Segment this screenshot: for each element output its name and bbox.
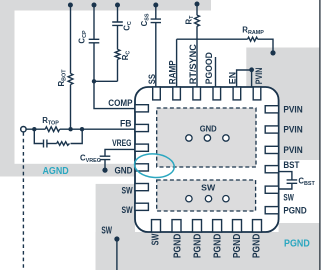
wire C_CP bottom to COMP	[94, 43, 135, 109]
top pins (inside package): SS RAMP RT/SYNC PGOOD EN PVIN	[153, 87, 261, 100]
gray block top-right PVIN region	[246, 48, 319, 161]
wire R_BOT bottom to FB node	[70, 85, 72, 130]
svg-text:SW: SW	[151, 234, 162, 246]
svg-text:RAMP: RAMP	[167, 60, 178, 84]
node FB junction1	[32, 127, 36, 131]
resistor feedforward	[57, 142, 70, 146]
svg-text:VREG: VREG	[112, 138, 131, 148]
node FB junction3	[80, 127, 84, 131]
pin SW right	[265, 186, 278, 193]
gray block left of package	[96, 184, 135, 270]
node COMP junction	[92, 79, 96, 83]
wire R_T to RT/SYNC pin	[196, 26, 198, 87]
svg-text:PGND: PGND	[252, 234, 263, 258]
capacitor C_VREG	[100, 156, 111, 159]
pin SW left5	[135, 184, 148, 191]
bottom pins (inside package): SW PGND x5	[152, 220, 262, 232]
resistor R_BOT	[68, 74, 73, 85]
left pins (inside package): COMP FB VREG GND SW SW	[135, 105, 148, 211]
resistor R_T	[195, 15, 200, 26]
IC package U1 outline	[135, 87, 279, 232]
pin SW left6	[135, 203, 148, 210]
svg-text:BST: BST	[283, 159, 299, 170]
svg-text:PVIN: PVIN	[283, 124, 302, 135]
svg-text:AGND: AGND	[43, 166, 69, 177]
svg-text:FB: FB	[120, 119, 132, 129]
wire R_BOT top	[70, 5, 72, 74]
capacitor C_C	[112, 22, 123, 25]
SW pad vias	[186, 196, 192, 202]
resistor R_TOP	[45, 127, 60, 132]
right pins (inside package): PVIN PVIN PVIN BST SW PGND	[265, 106, 278, 214]
svg-text:GND: GND	[115, 165, 133, 176]
node EN-PVIN junction	[249, 67, 254, 72]
capacitor C_CP	[89, 39, 100, 43]
capacitor feedforward	[44, 140, 47, 148]
wire C_SS top	[155, 5, 157, 19]
GND exposed pad (dashed)	[157, 108, 256, 167]
resistor R_C	[115, 49, 120, 59]
pin PGND b6	[253, 220, 262, 232]
wire branch down left	[34, 129, 43, 143]
svg-text:PGOOD: PGOOD	[203, 52, 214, 84]
pin SS	[153, 87, 161, 100]
svg-text:RT/SYNC: RT/SYNC	[187, 44, 198, 84]
svg-text:SW: SW	[122, 186, 133, 196]
svg-text:EN: EN	[227, 72, 238, 85]
node FB junction2	[68, 127, 72, 131]
pin RAMP	[173, 87, 181, 100]
svg-text:PGND: PGND	[192, 234, 203, 258]
wire junction link COMP node	[94, 80, 118, 82]
pin PGND b3	[193, 220, 202, 232]
svg-text:PVIN: PVIN	[283, 144, 302, 155]
node via top2	[92, 3, 97, 8]
pin FB	[135, 124, 148, 131]
svg-text:PVIN: PVIN	[283, 103, 302, 114]
wire PVIN drop	[251, 70, 253, 87]
wire C_BST to SW pin	[279, 184, 292, 190]
SW exposed pad (dashed)	[157, 180, 256, 211]
node via top3	[115, 3, 120, 8]
wire branch up right	[71, 129, 83, 143]
gray block below package	[96, 232, 320, 270]
wire C_C to R_C	[117, 26, 119, 50]
pin PGND b2	[172, 220, 181, 232]
wire VREG	[105, 149, 135, 155]
svg-text:SS: SS	[146, 74, 157, 84]
GND pad vias	[186, 135, 192, 141]
capacitor C_BST	[287, 180, 298, 183]
wire EN riser	[237, 70, 252, 87]
wire FB line left	[26, 128, 45, 130]
wire R_RAMP right to via	[258, 39, 273, 53]
node via top1	[68, 3, 73, 8]
wire RAMP to R_RAMP	[177, 38, 248, 40]
pin PVIN r2	[265, 126, 278, 133]
node AGND via	[102, 168, 107, 173]
gray left column	[0, 0, 15, 177]
svg-text:GND: GND	[200, 123, 217, 133]
svg-text:PGND: PGND	[232, 234, 243, 258]
wire C_CP top	[93, 5, 95, 39]
node via top4	[153, 3, 158, 8]
highlight ellipse around GND pin	[134, 152, 176, 179]
right figure border line	[319, 0, 321, 270]
dashed AGND boundary line	[22, 132, 24, 270]
pin COMP	[135, 105, 148, 112]
svg-text:SW: SW	[122, 205, 133, 215]
pin PVIN r1	[265, 106, 278, 113]
gray AGND strip	[0, 164, 135, 177]
pin PGND right	[265, 207, 278, 214]
svg-text:PGND: PGND	[284, 237, 310, 249]
pin EN	[233, 87, 241, 100]
node SW via	[114, 236, 119, 241]
pin PGND b4	[213, 220, 222, 232]
wire BST to C_BST	[279, 172, 292, 180]
pin VREG	[135, 144, 148, 151]
wire branch mid	[48, 143, 57, 145]
pin BST	[265, 166, 278, 173]
wire C_C top	[117, 5, 119, 22]
resistor R_RAMP	[248, 37, 258, 41]
svg-text:SW: SW	[283, 191, 293, 202]
node PVIN via	[270, 50, 275, 55]
wire C_VREG to via	[104, 160, 106, 170]
wire C_SS to SS pin	[155, 23, 157, 87]
svg-text:COMP: COMP	[108, 98, 132, 108]
svg-text:PVIN: PVIN	[253, 68, 264, 85]
wire FB line right	[60, 128, 135, 130]
pin PVIN r3	[265, 146, 278, 153]
capacitor C_SS	[151, 19, 161, 23]
gray top strip	[0, 0, 211, 11]
svg-text:SW: SW	[101, 226, 112, 237]
pin PVIN top	[253, 87, 261, 100]
svg-text:PGND: PGND	[212, 234, 223, 258]
gray block bottom-right PGND region	[279, 223, 320, 270]
pin PGOOD	[213, 87, 221, 100]
wire RAMP riser	[176, 39, 178, 87]
wire R_T top	[196, 4, 198, 15]
pin SW bottom	[152, 220, 161, 232]
node via top5	[195, 2, 200, 7]
svg-text:SW: SW	[201, 182, 215, 192]
pin GND	[135, 164, 148, 171]
terminal VOUT open circle	[21, 127, 26, 132]
pin PGND b5	[233, 220, 242, 232]
svg-text:PGND: PGND	[172, 234, 183, 258]
wire R_C bottom	[117, 59, 119, 81]
wire PGOOD stub	[215, 57, 217, 87]
pin RT/SYNC	[193, 87, 201, 100]
svg-text:PGND: PGND	[283, 204, 306, 215]
wire SW node down	[116, 239, 118, 270]
